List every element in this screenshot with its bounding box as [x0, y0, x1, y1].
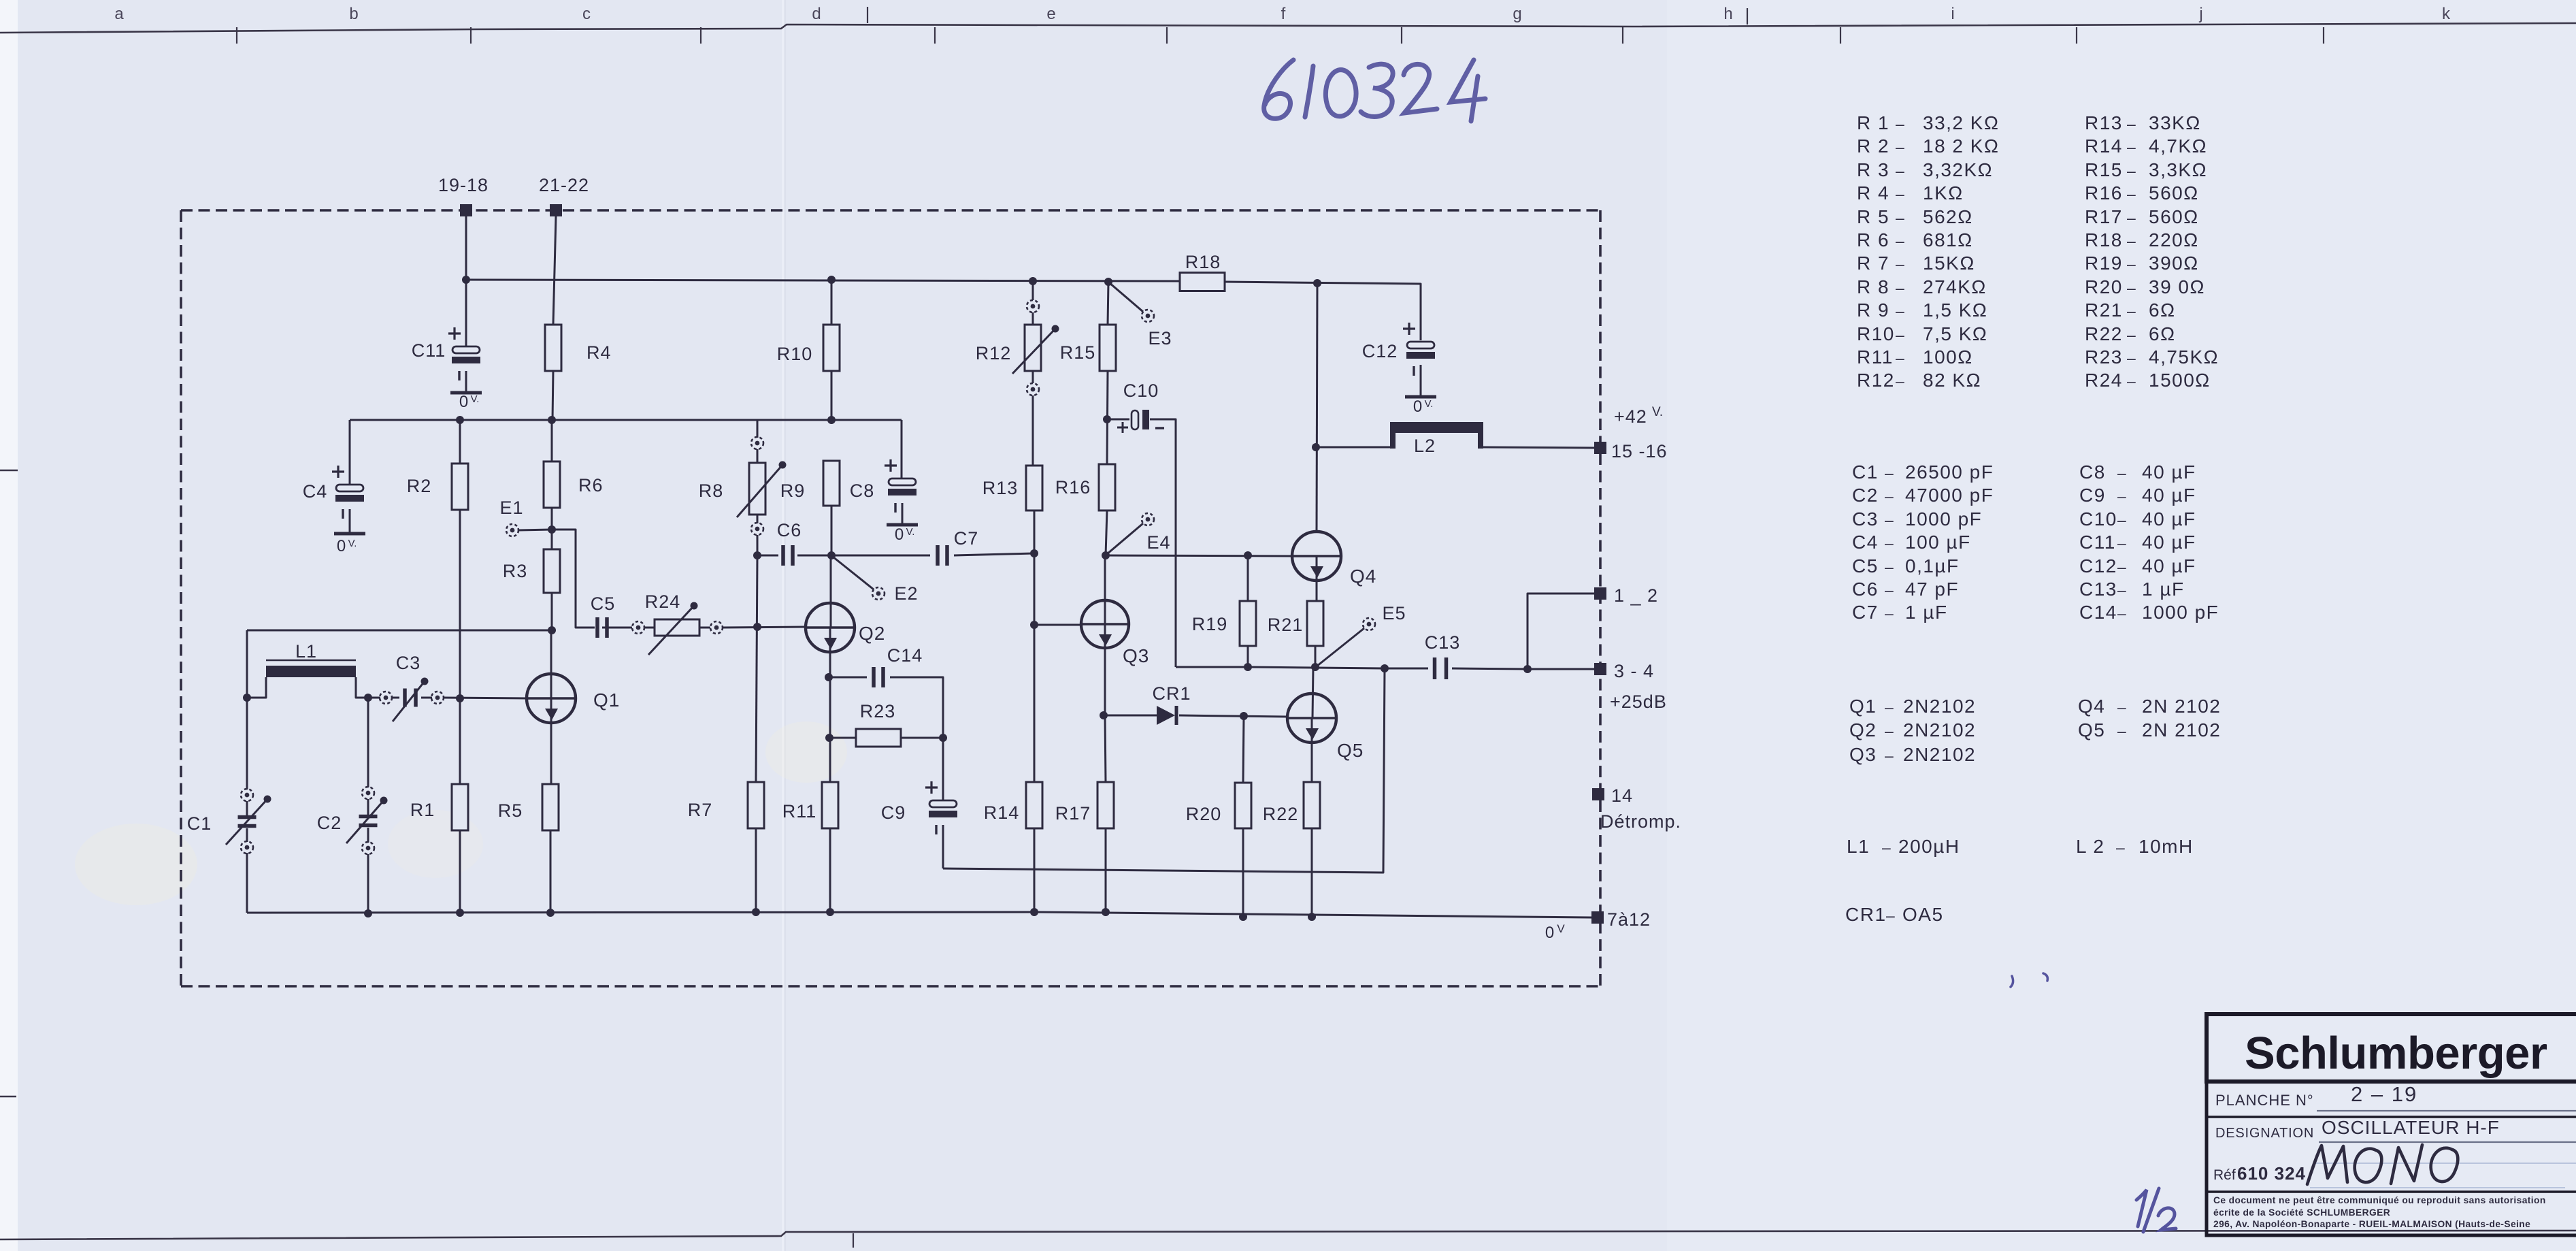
svg-text:Réf: Réf — [2213, 1167, 2236, 1183]
svg-text:R13: R13 — [2085, 112, 2123, 133]
wire R9 to Q2 collector node — [831, 506, 833, 555]
svg-text:1 µF: 1 µF — [1905, 602, 1948, 623]
svg-text:0: 0 — [337, 537, 346, 555]
wire C5 to eyelet to R24 — [602, 627, 632, 629]
resistor R9 — [780, 461, 840, 506]
svg-text:33,2 KΩ: 33,2 KΩ — [1923, 112, 1999, 133]
svg-text:R 8: R 8 — [1857, 276, 1889, 297]
wire R6 rail: bias rail to R6, R6 to E1 node — [551, 420, 553, 461]
wire feedback line to output node riser — [943, 668, 1385, 873]
svg-text:C8: C8 — [850, 481, 875, 501]
svg-text:–: – — [2127, 115, 2136, 133]
capacitor C7 — [938, 528, 978, 566]
svg-text:4,75KΩ: 4,75KΩ — [2149, 346, 2219, 368]
svg-text:CR1: CR1 — [1152, 683, 1191, 704]
svg-text:14: 14 — [1611, 785, 1633, 806]
svg-text:2N2102: 2N2102 — [1903, 719, 1976, 741]
svg-text:R21: R21 — [1268, 615, 1304, 635]
svg-text:C4: C4 — [303, 481, 328, 502]
wire C9 bottom to feedback line — [942, 825, 944, 868]
value label L2 — [2076, 836, 2194, 857]
wire output line (y=981) — [1176, 667, 1428, 668]
svg-text:C7: C7 — [1852, 602, 1879, 623]
value label R20 — [2085, 276, 2205, 297]
svg-text:a: a — [114, 5, 124, 23]
svg-text:C1: C1 — [1852, 461, 1879, 483]
svg-text:R14: R14 — [984, 802, 1020, 823]
capacitor C6 — [777, 520, 802, 566]
svg-text:C6: C6 — [1852, 579, 1879, 600]
resistor R17 — [1055, 782, 1114, 828]
svg-text:–: – — [1885, 558, 1894, 576]
svg-text:–: – — [2116, 839, 2126, 856]
svg-text:1500Ω: 1500Ω — [2149, 370, 2211, 391]
svg-text:390Ω: 390Ω — [2149, 253, 2199, 274]
capacitor C3 (variable) — [380, 653, 444, 721]
wire R2 rail: bias rail to R2, R2 to Q1 base line, to R1, to ground bus — [459, 420, 461, 464]
svg-text:–: – — [1896, 209, 1905, 227]
svg-text:C13: C13 — [1425, 632, 1461, 653]
value label Q4 — [2078, 696, 2221, 717]
svg-text:R11: R11 — [1857, 346, 1894, 368]
svg-text:26500 pF: 26500 pF — [1905, 461, 1994, 483]
svg-text:0,1µF: 0,1µF — [1905, 555, 1960, 576]
svg-text:C2: C2 — [317, 813, 342, 833]
svg-text:R12: R12 — [1857, 370, 1895, 391]
resistor R18 — [1180, 252, 1225, 291]
wire R24 to eyelet to Q2 base — [699, 627, 710, 629]
svg-text:R14: R14 — [2085, 135, 2123, 157]
wire +V rail R18 to C12 corner — [1225, 282, 1421, 340]
svg-text:R23: R23 — [2085, 346, 2123, 368]
transistor Q5 — [1287, 694, 1364, 761]
svg-text:E4: E4 — [1146, 532, 1170, 553]
capacitor C10 (electrolytic, horizontal) — [1117, 380, 1164, 433]
resistor R3 — [503, 549, 560, 593]
svg-text:–: – — [1896, 372, 1905, 390]
svg-text:b: b — [349, 5, 358, 23]
svg-text:g: g — [1513, 5, 1521, 23]
wire ground bus — [247, 912, 1592, 917]
svg-text:39 0Ω: 39 0Ω — [2149, 276, 2205, 297]
svg-text:R23: R23 — [860, 701, 896, 721]
svg-text:–: – — [2117, 581, 2127, 599]
svg-text:R4: R4 — [587, 342, 612, 363]
svg-text:0: 0 — [1413, 397, 1423, 416]
svg-text:1 _ 2: 1 _ 2 — [1614, 585, 1658, 606]
wire C3 right eyelet to Q1 base — [443, 698, 527, 698]
svg-text:E2: E2 — [894, 583, 918, 604]
value label R14 — [2085, 135, 2207, 157]
svg-text:h: h — [1723, 5, 1732, 23]
svg-text:C7: C7 — [954, 528, 979, 549]
svg-text:–: – — [2127, 255, 2136, 273]
svg-text:–: – — [1885, 487, 1894, 505]
svg-text:–: – — [1885, 581, 1894, 599]
svg-text:f: f — [1281, 5, 1286, 23]
wire tank top line — [247, 630, 552, 632]
terminal 14 (Detromp.) — [1592, 785, 1681, 832]
resistor R15 — [1060, 325, 1116, 371]
svg-text:R9: R9 — [780, 481, 806, 501]
wire +V rail (y=411) from C11 node to R18 — [466, 280, 1180, 281]
svg-text:47000 pF: 47000 pF — [1905, 485, 1994, 506]
wire CR1 cathode to R20 node to Q5 base — [1179, 715, 1287, 717]
value label R11 — [1857, 346, 1973, 368]
svg-text:–: – — [1885, 534, 1894, 552]
svg-text:–: – — [2117, 487, 2127, 505]
wire Q3 base — [1034, 624, 1080, 626]
value label R1 — [1857, 112, 1999, 133]
svg-text:R 7: R 7 — [1857, 253, 1889, 274]
resistor R7 — [688, 782, 764, 828]
resistor R1 — [410, 784, 468, 830]
svg-text:R16: R16 — [1055, 477, 1091, 498]
inductor L1 — [266, 641, 356, 677]
svg-text:k: k — [2442, 5, 2451, 23]
value label R16 — [2085, 182, 2199, 204]
svg-text:–: – — [1896, 185, 1905, 203]
wire Q5 collector — [1312, 668, 1313, 718]
terminal 1-2 — [1594, 585, 1658, 606]
svg-text:C14: C14 — [887, 645, 923, 666]
wire R21 to output line — [1315, 646, 1317, 667]
svg-text:R18: R18 — [2085, 229, 2123, 250]
svg-text:–: – — [1885, 698, 1894, 716]
svg-text:R16: R16 — [2085, 182, 2123, 204]
svg-text:R15: R15 — [2085, 159, 2123, 180]
wire C6 right lead to Q2 collector node — [797, 555, 831, 557]
value label R9 — [1857, 299, 1987, 321]
svg-text:–: – — [1885, 604, 1894, 622]
svg-text:R 1: R 1 — [1857, 112, 1889, 133]
node E1 — [499, 498, 523, 536]
svg-text:40 µF: 40 µF — [2142, 485, 2196, 506]
wire R4 bottom to bias rail — [552, 371, 553, 420]
capacitor C9 (electrolytic) — [881, 781, 957, 834]
svg-text:R17: R17 — [1055, 803, 1091, 824]
resistor R22 — [1263, 782, 1320, 828]
wire Q1 collector — [550, 630, 552, 698]
wire L2 to 15-16 terminal — [1483, 447, 1594, 448]
resistor R16 — [1055, 464, 1115, 510]
wire L1 right lead — [356, 677, 368, 698]
svg-text:0: 0 — [895, 525, 904, 544]
capacitor C2 (variable) — [317, 787, 388, 854]
svg-text:C10: C10 — [2079, 508, 2117, 530]
wire Q2 emitter chain to R11 to ground — [829, 628, 831, 782]
svg-text:–: – — [1896, 279, 1905, 297]
svg-text:2N 2102: 2N 2102 — [2142, 696, 2221, 717]
wire R8 chain from bias rail — [757, 420, 759, 438]
svg-text:40 µF: 40 µF — [2142, 532, 2196, 553]
capacitor C8 (electrolytic) — [850, 459, 918, 544]
svg-text:7,5 KΩ: 7,5 KΩ — [1923, 323, 1987, 344]
svg-text:–: – — [2117, 464, 2127, 482]
handwritten sheet number 1/2 — [2136, 1188, 2176, 1232]
svg-text:40 µF: 40 µF — [2142, 555, 2196, 576]
wire R15 from +V rail — [1108, 282, 1108, 325]
wire E1 node to C5 (L bend) — [552, 530, 595, 628]
svg-text:1000 pF: 1000 pF — [2142, 602, 2219, 623]
svg-text:–: – — [2127, 372, 2136, 390]
svg-text:R22: R22 — [1263, 804, 1299, 824]
resistor R23 — [856, 701, 901, 747]
svg-text:R8: R8 — [699, 481, 724, 501]
svg-text:i: i — [1951, 5, 1954, 23]
svg-text:V.: V. — [348, 538, 357, 549]
wire C1 segments — [246, 801, 248, 815]
svg-text:C5: C5 — [591, 594, 616, 614]
capacitor C5 — [591, 594, 616, 638]
title block row DESIGNATION OSCILLATEUR H-F — [2215, 1117, 2576, 1142]
wire C3 plates leads — [392, 697, 399, 699]
svg-text:R12: R12 — [976, 343, 1012, 363]
wire Q2 collector — [830, 555, 832, 628]
svg-text:–: – — [1896, 115, 1905, 133]
svg-text:E1: E1 — [499, 498, 523, 518]
svg-text:e: e — [1046, 5, 1055, 23]
resistor R11 — [782, 782, 838, 828]
svg-text:V.: V. — [906, 527, 915, 538]
transistor Q1 — [527, 674, 620, 723]
svg-text:–: – — [2127, 349, 2136, 367]
svg-text:R24: R24 — [645, 591, 681, 612]
wire R20 from node to ground — [1243, 716, 1244, 783]
handwritten mark near title block — [2011, 973, 2047, 987]
terminal 19-18 — [438, 175, 489, 216]
value label Q5 — [2078, 719, 2221, 741]
svg-text:R 2: R 2 — [1857, 135, 1889, 157]
svg-text:–: – — [2117, 511, 2127, 529]
value label R4 — [1857, 182, 1964, 204]
value label R2 — [1857, 135, 1999, 157]
svg-text:4,7KΩ: 4,7KΩ — [2149, 135, 2207, 157]
svg-text:–: – — [2127, 185, 2136, 203]
wire R3: E1 node to R3 to tank node — [551, 530, 553, 549]
svg-text:–: – — [2127, 302, 2136, 320]
inductor L2 — [1390, 422, 1483, 456]
svg-text:Q2: Q2 — [1849, 719, 1877, 741]
svg-text:L1: L1 — [295, 641, 317, 662]
value label C4 — [1852, 532, 1971, 553]
svg-text:–: – — [1896, 326, 1905, 344]
value label C9 — [2079, 485, 2196, 506]
svg-text:6Ω: 6Ω — [2149, 299, 2176, 321]
svg-text:0: 0 — [459, 393, 469, 411]
svg-text:C1: C1 — [187, 813, 212, 834]
svg-text:–: – — [1885, 464, 1894, 482]
svg-text:21-22: 21-22 — [539, 175, 589, 195]
capacitor C4 (electrolytic) — [303, 466, 365, 555]
value label CR1 — [1845, 904, 1944, 925]
node E3 — [1110, 283, 1172, 348]
resistor R21 — [1268, 601, 1323, 646]
wire C4 to ground bar — [349, 509, 351, 533]
value label Q3 — [1849, 744, 1976, 765]
svg-text:R20: R20 — [2085, 276, 2123, 297]
svg-text:82 KΩ: 82 KΩ — [1923, 370, 1981, 391]
logo Schlumberger — [2207, 1014, 2576, 1082]
value label C8 — [2079, 461, 2196, 483]
resistor R19 — [1192, 601, 1256, 646]
svg-text:R5: R5 — [498, 800, 523, 821]
svg-text:R17: R17 — [2085, 206, 2123, 227]
svg-text:C12: C12 — [1362, 341, 1398, 361]
svg-text:R18: R18 — [1185, 252, 1221, 272]
value label R17 — [2085, 206, 2199, 227]
transistor Q2 — [806, 603, 885, 652]
value label R21 — [2085, 299, 2176, 321]
value label C3 — [1852, 508, 1982, 530]
wire R19 from E4 line to output line — [1247, 555, 1249, 601]
svg-text:C14: C14 — [2079, 602, 2117, 623]
svg-text:R3: R3 — [503, 561, 528, 581]
value label R3 — [1857, 159, 1993, 180]
capacitor C11 (electrolytic) — [412, 327, 482, 411]
svg-text:–: – — [1885, 722, 1894, 740]
svg-text:Détromp.: Détromp. — [1600, 811, 1681, 832]
wire E1 eyelet to node — [518, 530, 552, 530]
transistor Q4 — [1292, 532, 1376, 587]
svg-text:R15: R15 — [1060, 342, 1096, 363]
wire C14 right lead and corner down — [890, 677, 943, 738]
svg-text:Ce document ne peut être commu: Ce document ne peut être communiqué ou r… — [2213, 1195, 2546, 1205]
svg-text:C11: C11 — [2079, 532, 2116, 553]
svg-text:Q3: Q3 — [1123, 645, 1149, 666]
svg-text:E3: E3 — [1148, 328, 1172, 348]
svg-text:–: – — [1896, 255, 1905, 273]
svg-text:–: – — [1896, 162, 1905, 180]
svg-text:R10: R10 — [777, 344, 813, 364]
wire E4 line to Q4 base — [1106, 555, 1292, 556]
wire R10 from +V rail — [831, 280, 833, 325]
wire C12 to ground bar — [1420, 365, 1422, 397]
svg-text:Q3: Q3 — [1849, 744, 1877, 765]
svg-text:2N 2102: 2N 2102 — [2142, 719, 2221, 741]
wire C13 right lead to 3-4 node — [1452, 668, 1528, 669]
wire Q1 emitter to R5 to ground bus — [550, 698, 552, 784]
svg-text:PLANCHE N°: PLANCHE N° — [2215, 1092, 2314, 1109]
wire C7 right lead to R13 node — [954, 553, 1034, 555]
svg-text:–: – — [2117, 534, 2127, 552]
svg-text:OSCILLATEUR H-F: OSCILLATEUR H-F — [2322, 1117, 2500, 1138]
svg-text:Q2: Q2 — [859, 623, 885, 644]
value label R15 — [2085, 159, 2207, 180]
svg-text:R 6: R 6 — [1857, 229, 1889, 250]
svg-text:Q1: Q1 — [593, 689, 620, 711]
svg-text:DESIGNATION: DESIGNATION — [2215, 1126, 2314, 1141]
wire C7 left lead — [831, 555, 930, 557]
svg-text:Q1: Q1 — [1849, 696, 1877, 717]
terminal 21-22 — [539, 175, 589, 216]
wire C8 corner down — [901, 420, 903, 478]
svg-text:10mH: 10mH — [2139, 836, 2194, 857]
svg-text:–: – — [2127, 162, 2136, 180]
value label R19 — [2085, 253, 2199, 274]
svg-text:+25dB: +25dB — [1610, 692, 1667, 712]
value label C6 — [1852, 579, 1959, 600]
svg-text:R24: R24 — [2085, 370, 2123, 391]
svg-text:+42: +42 — [1614, 406, 1647, 427]
svg-text:L1: L1 — [1847, 836, 1870, 857]
svg-text:R1: R1 — [410, 800, 435, 820]
svg-text:274KΩ: 274KΩ — [1923, 276, 1987, 297]
resistor R14 — [984, 782, 1042, 828]
value label C11 — [2079, 532, 2196, 553]
svg-text:R6: R6 — [578, 475, 604, 495]
svg-text:d: d — [812, 5, 821, 23]
svg-text:Q4: Q4 — [2078, 696, 2105, 717]
svg-text:40 µF: 40 µF — [2142, 461, 2196, 483]
resistor R24 (adjustable) — [632, 591, 723, 655]
wire R7 rail down to ground — [756, 555, 757, 782]
svg-text:–: – — [2127, 279, 2136, 297]
svg-text:19-18: 19-18 — [438, 175, 489, 195]
svg-text:R20: R20 — [1186, 804, 1222, 824]
svg-text:R10: R10 — [1857, 323, 1895, 344]
svg-text:–: – — [1885, 511, 1894, 529]
resistor R8 (adjustable) — [699, 437, 787, 535]
wire 3-4 node to terminal — [1528, 668, 1594, 670]
transistor Q3 — [1081, 600, 1149, 666]
module boundary (dashed box) — [181, 210, 1600, 986]
svg-text:R11: R11 — [782, 801, 817, 822]
value label C2 — [1852, 485, 1994, 506]
value label C13 — [2079, 579, 2185, 600]
svg-text:C13: C13 — [2079, 579, 2117, 600]
svg-text:–: – — [1886, 907, 1896, 924]
svg-text:L 2: L 2 — [2076, 836, 2104, 857]
capacitor C14 — [874, 645, 923, 687]
value label C1 — [1852, 461, 1994, 483]
value label Q1 — [1849, 696, 1976, 717]
svg-text:–: – — [2117, 604, 2127, 622]
resistor R2 — [407, 464, 468, 510]
svg-text:–: – — [1885, 747, 1894, 764]
wire C6 left lead — [757, 555, 778, 557]
node E5 — [1317, 603, 1406, 666]
svg-text:47 pF: 47 pF — [1905, 579, 1959, 600]
svg-text:1,5 KΩ: 1,5 KΩ — [1923, 299, 1987, 321]
title block row Ref 610324 MONO (handwritten) — [2207, 1145, 2576, 1192]
svg-text:33KΩ: 33KΩ — [2149, 112, 2201, 133]
capacitor C12 (electrolytic) — [1362, 323, 1436, 416]
svg-text:–: – — [1896, 349, 1905, 367]
svg-text:V: V — [1557, 922, 1565, 935]
svg-text:2 – 19: 2 – 19 — [2351, 1082, 2417, 1106]
svg-text:C9: C9 — [881, 802, 906, 823]
svg-text:écrite de la Société SCHLUMBER: écrite de la Société SCHLUMBERGER — [2213, 1207, 2390, 1218]
wire R13 to C7 node to Q3 base node to R14 — [1034, 510, 1036, 782]
svg-text:–: – — [1896, 302, 1905, 320]
svg-text:15 -16: 15 -16 — [1611, 441, 1668, 461]
svg-text:–: – — [2127, 209, 2136, 227]
svg-text:0: 0 — [1545, 924, 1555, 942]
wire Q4 collector rail from +V rail — [1317, 283, 1317, 532]
svg-text:C12: C12 — [2079, 555, 2117, 576]
svg-text:–: – — [2127, 232, 2136, 250]
svg-text:681Ω: 681Ω — [1923, 229, 1973, 250]
svg-text:–: – — [2117, 558, 2127, 576]
svg-text:j: j — [2198, 5, 2202, 23]
svg-text:3,32KΩ: 3,32KΩ — [1923, 159, 1993, 180]
svg-text:C5: C5 — [1852, 555, 1879, 576]
value label C12 — [2079, 555, 2196, 576]
ground 0V at C11 — [0, 0, 1, 1]
svg-text:R22: R22 — [2085, 323, 2123, 344]
wire bias rail (y=617) C4 to C8 corner — [350, 419, 902, 421]
